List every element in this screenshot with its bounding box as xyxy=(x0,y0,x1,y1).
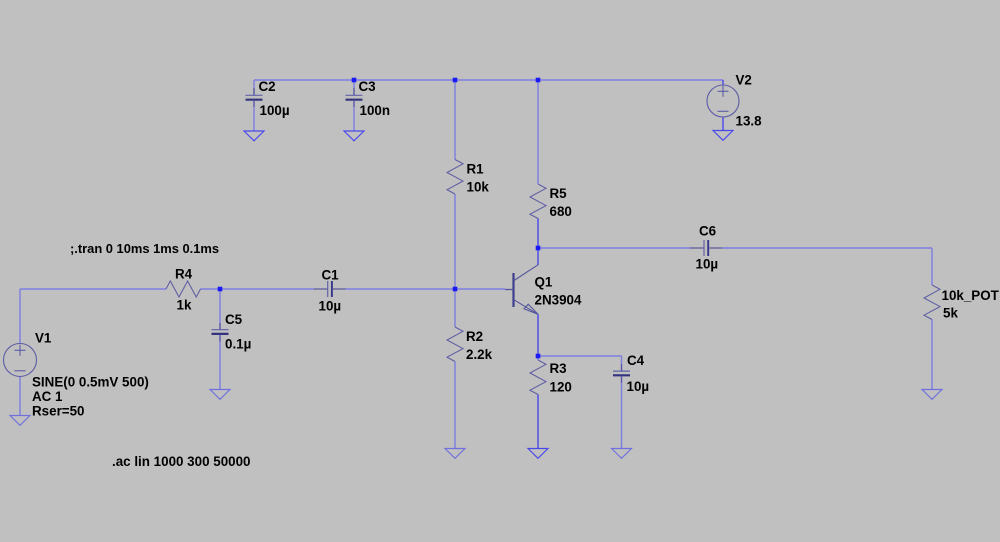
svg-text:Q1: Q1 xyxy=(535,274,553,289)
svg-text:10k_POT: 10k_POT xyxy=(942,288,1000,303)
svg-text:R3: R3 xyxy=(550,361,567,376)
svg-text:2N3904: 2N3904 xyxy=(535,292,582,307)
svg-text:R4: R4 xyxy=(175,267,193,282)
svg-text:1k: 1k xyxy=(177,298,192,313)
svg-text:V1: V1 xyxy=(35,331,52,346)
svg-text:100µ: 100µ xyxy=(260,103,290,118)
svg-text:120: 120 xyxy=(550,380,572,395)
svg-text:C6: C6 xyxy=(699,224,716,239)
svg-text:2.2k: 2.2k xyxy=(466,347,493,362)
svg-text:C5: C5 xyxy=(225,312,243,327)
svg-text:13.8: 13.8 xyxy=(736,114,763,129)
svg-text:10µ: 10µ xyxy=(696,257,719,272)
svg-text:0.1µ: 0.1µ xyxy=(225,337,251,352)
svg-text:5k: 5k xyxy=(943,306,958,321)
svg-text:10µ: 10µ xyxy=(627,379,650,394)
svg-text:10k: 10k xyxy=(467,180,490,195)
svg-text:R5: R5 xyxy=(550,186,568,201)
svg-text:V2: V2 xyxy=(736,73,752,88)
svg-text:AC 1: AC 1 xyxy=(32,389,63,404)
svg-text:C3: C3 xyxy=(359,79,376,94)
svg-text:C4: C4 xyxy=(627,353,645,368)
svg-text:100n: 100n xyxy=(360,103,391,118)
svg-text:R2: R2 xyxy=(466,329,483,344)
svg-text:Rser=50: Rser=50 xyxy=(32,404,85,419)
svg-text:10µ: 10µ xyxy=(319,299,342,314)
svg-text:.ac lin 1000 300 50000: .ac lin 1000 300 50000 xyxy=(112,454,250,469)
svg-text:680: 680 xyxy=(550,204,572,219)
svg-text:;.tran 0 10ms 1ms 0.1ms: ;.tran 0 10ms 1ms 0.1ms xyxy=(70,241,219,256)
svg-text:SINE(0 0.5mV 500): SINE(0 0.5mV 500) xyxy=(32,375,149,390)
svg-text:C1: C1 xyxy=(322,268,340,283)
svg-text:R1: R1 xyxy=(467,162,485,177)
svg-text:C2: C2 xyxy=(259,79,276,94)
